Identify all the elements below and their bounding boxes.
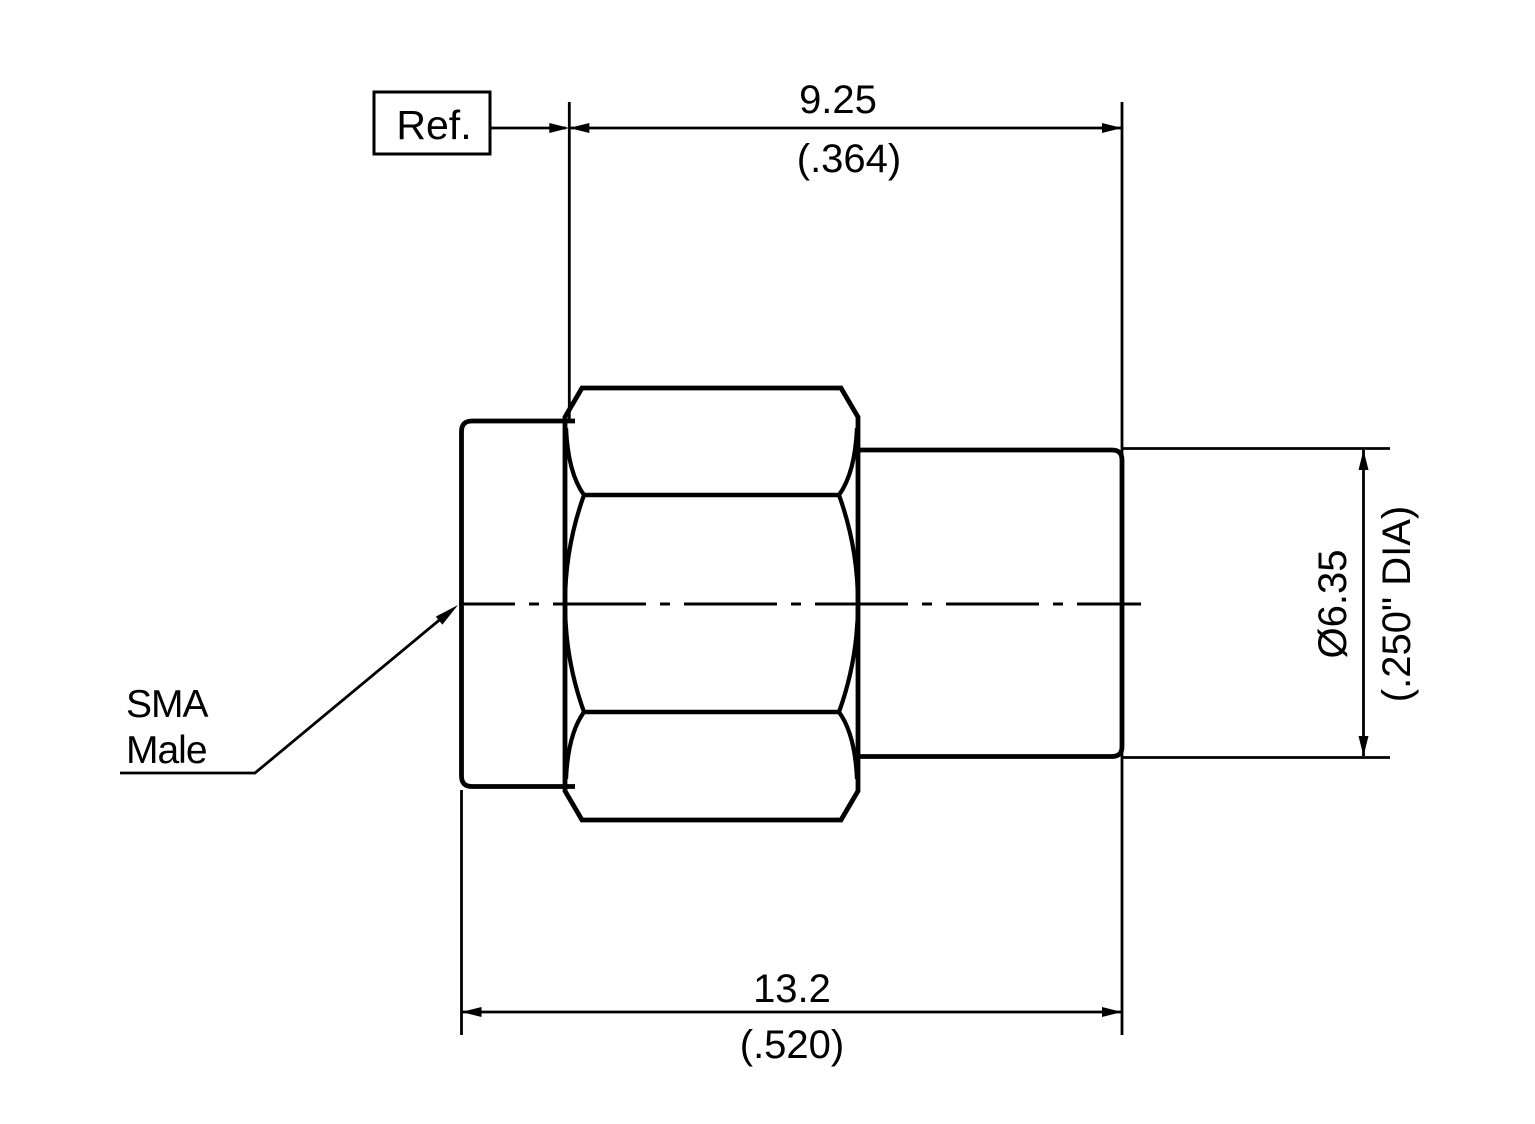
diameter extension line bottom xyxy=(1122,756,1390,759)
svg-text:Male: Male xyxy=(126,729,207,772)
arrow bottom of diameter dimension xyxy=(1359,736,1369,756)
SMA leader arrow xyxy=(436,605,458,625)
arrow left of 9.25 dimension xyxy=(569,123,589,133)
dimension line 13.2 xyxy=(462,1011,1123,1014)
svg-text:(.364): (.364) xyxy=(797,137,902,181)
dimension line 9.25 xyxy=(569,127,1122,130)
arrow top of diameter dimension xyxy=(1359,450,1369,470)
svg-text:(.250" DIA): (.250" DIA) xyxy=(1375,506,1419,702)
hex nut silhouette xyxy=(565,388,858,820)
Ref leader line xyxy=(490,127,566,130)
svg-text:9.25: 9.25 xyxy=(799,78,877,122)
svg-text:Ø6.35: Ø6.35 xyxy=(1311,550,1355,659)
center line (dash-dot axis) xyxy=(459,603,1141,606)
barrel (rear cylinder, right) xyxy=(858,450,1122,757)
hex chamfer arc top-right xyxy=(839,428,857,495)
hex middle facet arc left xyxy=(565,495,584,712)
dimension line diameter 6.35 xyxy=(1362,450,1365,756)
svg-text:Ref.: Ref. xyxy=(396,102,471,148)
hex chamfer arc bottom-left xyxy=(566,712,584,779)
svg-text:SMA: SMA xyxy=(126,683,209,726)
hex facet line upper xyxy=(584,493,839,498)
flange (SMA coupling collar, left) xyxy=(462,421,576,787)
SMA leader line xyxy=(120,617,443,773)
Ref. box xyxy=(374,92,490,154)
extension line left of 9.25 dimension xyxy=(568,102,571,419)
hex facet line lower xyxy=(584,710,839,715)
Ref leader arrow xyxy=(549,123,569,133)
extension line right (shared by 9.25 and 13.2 dimensions) xyxy=(1121,102,1124,1035)
arrow left of 13.2 dimension xyxy=(462,1007,482,1017)
svg-text:(.520): (.520) xyxy=(740,1023,845,1067)
hex middle facet arc right xyxy=(839,495,858,712)
diameter extension line top xyxy=(1122,447,1390,450)
svg-text:13.2: 13.2 xyxy=(753,967,831,1011)
arrow right of 9.25 dimension xyxy=(1102,123,1122,133)
bottom extension line left of 13.2 dimension xyxy=(460,790,463,1035)
hex chamfer arc bottom-right xyxy=(839,712,857,779)
hex chamfer arc top-left xyxy=(566,428,584,495)
arrow right of 13.2 dimension xyxy=(1102,1007,1122,1017)
